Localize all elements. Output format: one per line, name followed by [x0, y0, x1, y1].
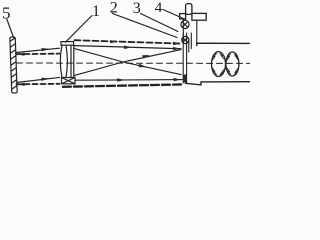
svg-text:4: 4 — [155, 0, 163, 16]
bracket 4 post — [186, 4, 192, 15]
arrowhead left — [17, 53, 25, 56]
adjusting screw upper — [181, 20, 189, 28]
arrowhead — [42, 48, 50, 51]
bracket 4 right bar — [192, 13, 206, 20]
eyepiece doublet element 2 — [226, 52, 239, 76]
eyepiece tube bottom wall — [186, 82, 251, 85]
ray C descending through focus — [75, 49, 182, 75]
ray F bottom (thick dashed) — [63, 84, 184, 86]
eyepiece doublet element 1 — [212, 52, 226, 77]
arrowhead — [124, 46, 132, 49]
objective lens assembly 1 — [60, 42, 75, 84]
ray B — [75, 46, 182, 49]
ray lower-left oblique — [17, 77, 60, 82]
reticle plate 2 — [183, 33, 186, 83]
arrowhead at plate — [173, 42, 181, 45]
target plate 5 — [10, 37, 17, 93]
svg-text:5: 5 — [2, 4, 11, 23]
leader line 1 — [66, 16, 93, 43]
svg-text:1: 1 — [92, 3, 100, 20]
ray A top (thick dashed) — [75, 40, 182, 43]
arrowhead — [117, 78, 125, 81]
arrowhead at plate — [173, 47, 181, 50]
ray upper-left horizontal (thick dashed) — [17, 53, 60, 56]
leader line 4 — [163, 10, 186, 20]
leader line 5 — [7, 19, 14, 38]
arrowhead — [110, 40, 118, 43]
ray upper-left oblique — [17, 48, 60, 52]
optical axis — [17, 62, 251, 64]
ray lower-left horizontal (thick dashed) — [17, 83, 60, 86]
leader line 2 — [113, 14, 178, 38]
ray E lower — [75, 79, 182, 82]
ray D ascending through focus — [75, 50, 182, 76]
adjuster housing 3 — [183, 19, 197, 52]
bracket 4 left tab — [180, 14, 186, 19]
arrowhead — [139, 64, 148, 68]
leader line 3 — [141, 14, 179, 32]
arrowhead left — [17, 83, 25, 86]
svg-text:3: 3 — [133, 0, 141, 17]
eyepiece tube top wall — [197, 43, 250, 45]
adjusting screw lower — [182, 36, 189, 43]
arrowhead — [42, 78, 50, 81]
arrowhead — [142, 55, 150, 59]
arrowhead at plate — [174, 78, 182, 81]
